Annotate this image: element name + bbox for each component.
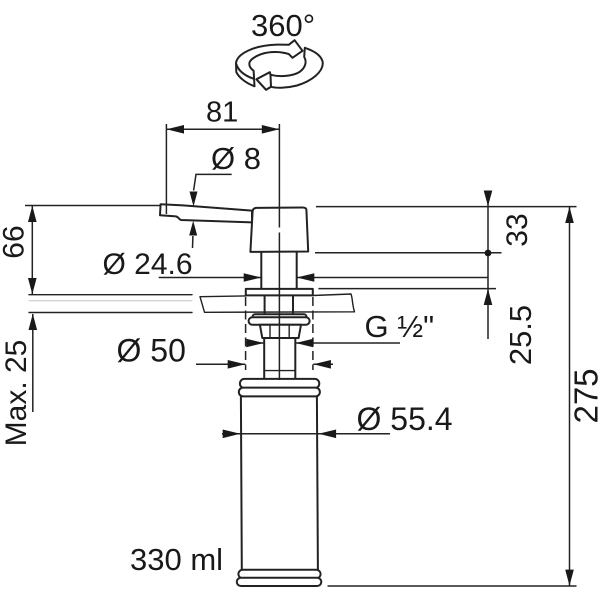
bottle top ring 2: [239, 388, 320, 397]
dim 33-25.5 vertical line: [487, 191, 489, 340]
rotation symbol lower ribbon piece with left arrow: [257, 48, 323, 90]
right ext line flange top: [318, 288, 496, 290]
dim Ø24.6 line right: [297, 277, 488, 279]
arrow Ø55.4 left (right-pointing): [223, 430, 241, 439]
hex nut facets: [270, 325, 289, 338]
svg-text:G ½": G ½": [365, 309, 435, 344]
svg-text:275: 275: [568, 368, 600, 423]
right ext line head bottom: [315, 252, 502, 254]
lower threaded shank: [264, 338, 295, 379]
arrow 81 left: [166, 125, 184, 134]
countertop right slab: [200, 294, 355, 312]
arrow Ø55.4 right (left-pointing): [319, 430, 337, 439]
shank collar seam: [264, 370, 295, 372]
bottle bottom ring 1: [238, 570, 320, 579]
bottle top ring 1: [240, 379, 319, 388]
arrow 66 bottom (down): [28, 278, 37, 294]
arrow Ø8 upper (down): [190, 192, 198, 207]
svg-text:Ø 55.4: Ø 55.4: [357, 401, 453, 437]
dim 66 extension top: [25, 205, 161, 207]
washer pill: [249, 317, 310, 325]
arrow 25.5 (up): [484, 289, 493, 305]
dim 81 extension left: [165, 124, 167, 214]
countertop left slab top line: [29, 294, 192, 296]
arrow 275 top (up): [565, 207, 574, 223]
svg-text:Ø 24.6: Ø 24.6: [103, 248, 193, 281]
bottle body: [241, 396, 318, 569]
arrow Ø50 left (right-pointing): [228, 360, 246, 369]
centerline through dispenser: [278, 124, 280, 380]
dim G half line: [246, 342, 400, 344]
dimension graphics: [25, 124, 577, 586]
dim Ø24.6 line left: [159, 277, 262, 279]
svg-text:81: 81: [206, 96, 238, 128]
shank through countertop: [265, 295, 293, 314]
countertop left slab mid faint line: [29, 300, 192, 302]
neck below head: [261, 252, 296, 289]
svg-text:33: 33: [501, 213, 534, 246]
dim 81 line: [166, 128, 279, 130]
dim Ø8 leader: [193, 174, 232, 248]
svg-text:330 ml: 330 ml: [130, 542, 223, 577]
svg-text:Ø 50: Ø 50: [117, 333, 186, 369]
spout tube: [160, 204, 252, 222]
dim 275 vertical line: [569, 207, 571, 586]
hex nut: [260, 325, 301, 338]
rotation symbol left arrow redraw on top: [257, 72, 272, 89]
rotation symbol upper ribbon piece with right arrow: [236, 40, 303, 86]
arrow 275 bottom (down): [565, 570, 574, 586]
arrowheads: [28, 125, 574, 586]
dim Ø55.4 line: [222, 433, 390, 435]
dim Ø50 ext line right dashed: [312, 297, 314, 370]
dim Ø50 ext line left dashed: [245, 297, 247, 370]
dot 33-25.5 junction: [485, 250, 492, 257]
arrow G half right (left-pointing): [296, 339, 314, 348]
svg-text:Max. 25: Max. 25: [0, 340, 33, 447]
washer lip: [253, 314, 307, 320]
arrow G half left (right-pointing): [246, 339, 264, 348]
head of dispenser: [250, 208, 308, 252]
arrow 81 right: [262, 125, 280, 134]
right ext line head top: [316, 206, 577, 208]
svg-text:Ø 8: Ø 8: [211, 141, 261, 176]
dim Ø50 line: [196, 363, 333, 365]
countertop left slab bottom line: [29, 312, 192, 314]
dim 66 line: [31, 206, 33, 294]
arrow 33 top (down): [484, 191, 493, 207]
arrow 66 top (up): [28, 206, 37, 222]
arrow Ø8 lower (up): [189, 221, 197, 236]
svg-text:66: 66: [0, 225, 31, 258]
dim Max25 line: [32, 314, 34, 412]
svg-text:25.5: 25.5: [503, 305, 538, 365]
bottom ext line bottle: [328, 585, 577, 587]
arrow Ø50 right (left-pointing): [313, 360, 331, 369]
arrow Max25 (up): [29, 314, 38, 330]
svg-text:360°: 360°: [251, 8, 315, 43]
rotation symbol band outer lower-left edge: [236, 63, 254, 79]
bottle bottom ring 2: [237, 578, 321, 586]
arrow Ø24.6 left (right-pointing): [244, 273, 262, 282]
flange plate: [246, 289, 313, 296]
arrow Ø24.6 right (left-pointing): [297, 273, 315, 282]
